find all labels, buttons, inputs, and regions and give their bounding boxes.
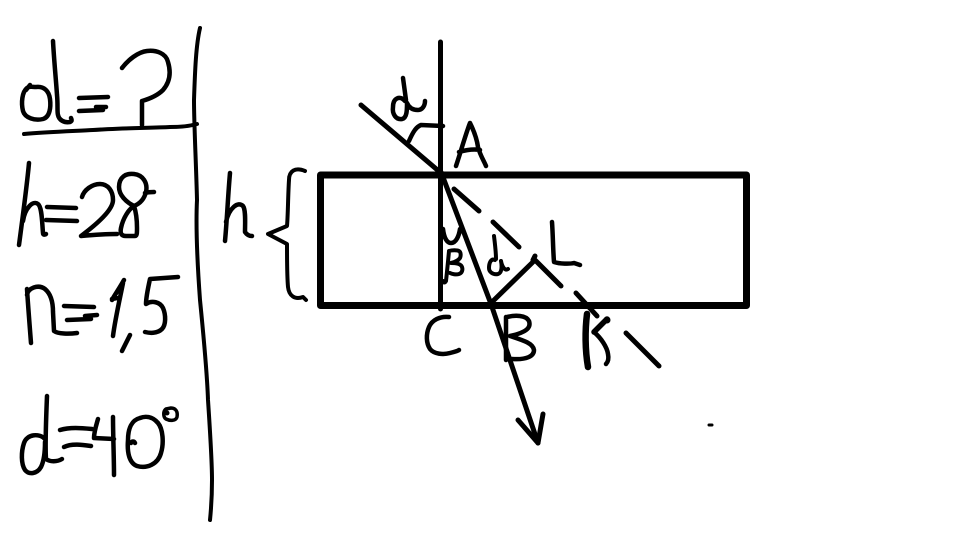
normal line through A	[438, 42, 443, 309]
divider vertical line	[194, 28, 212, 520]
text h=28 : equals	[46, 207, 77, 221]
foot mark at L	[533, 256, 535, 260]
label K vertical	[586, 314, 588, 367]
dashed ray segment 4 (crossing bottom edge)	[576, 293, 597, 316]
question mark	[122, 51, 170, 125]
equals sign of "alpha = ?"	[79, 97, 108, 98]
dashed ray segment 2	[493, 222, 519, 247]
glass slab rectangle	[321, 175, 747, 306]
text h=28 : 8	[119, 174, 154, 236]
label beta	[443, 250, 462, 282]
label K leg	[594, 332, 608, 364]
arc beta below A	[443, 229, 460, 243]
label alpha in "alpha = ?" (o loop)	[22, 85, 50, 120]
curly brace for h	[268, 169, 306, 300]
label alpha (d) at top	[393, 78, 425, 119]
dashed ray segment 3 (from foot L)	[536, 261, 561, 286]
label C	[427, 317, 459, 354]
dashed ray segment 1	[454, 189, 479, 211]
text n=1,5 : n	[27, 287, 77, 343]
label K arm	[594, 319, 607, 332]
incident ray	[361, 105, 441, 173]
underline under alpha=?	[24, 124, 197, 134]
text n=1,5 : 1	[112, 280, 124, 336]
label h next to brace	[225, 173, 252, 241]
text n=1,5 : 5	[145, 277, 178, 333]
label A	[456, 123, 486, 166]
text h=28 : h	[19, 163, 46, 245]
label d small (alpha inside slab)	[489, 236, 508, 274]
text alpha=40deg : alpha	[22, 396, 62, 473]
perpendicular from B to dashed ray	[491, 260, 535, 303]
angle mark alpha at A	[409, 125, 443, 141]
text h=28 : 2	[81, 184, 117, 236]
text alpha=40deg : degree circle	[164, 408, 178, 420]
label alpha stroke (l)	[53, 41, 72, 122]
text n=1,5 : equals	[64, 306, 97, 320]
label B	[506, 316, 534, 360]
label L	[552, 222, 580, 265]
arrowhead	[518, 414, 543, 443]
text alpha=40deg : 4	[94, 417, 114, 475]
text alpha=40deg : 0	[128, 417, 163, 467]
text alpha=40deg : equals	[60, 428, 92, 447]
dashed ray segment 5	[626, 333, 659, 366]
stray dot	[709, 424, 712, 427]
text n=1,5 : comma	[122, 335, 130, 351]
refracted ray with arrow shaft	[441, 172, 538, 443]
